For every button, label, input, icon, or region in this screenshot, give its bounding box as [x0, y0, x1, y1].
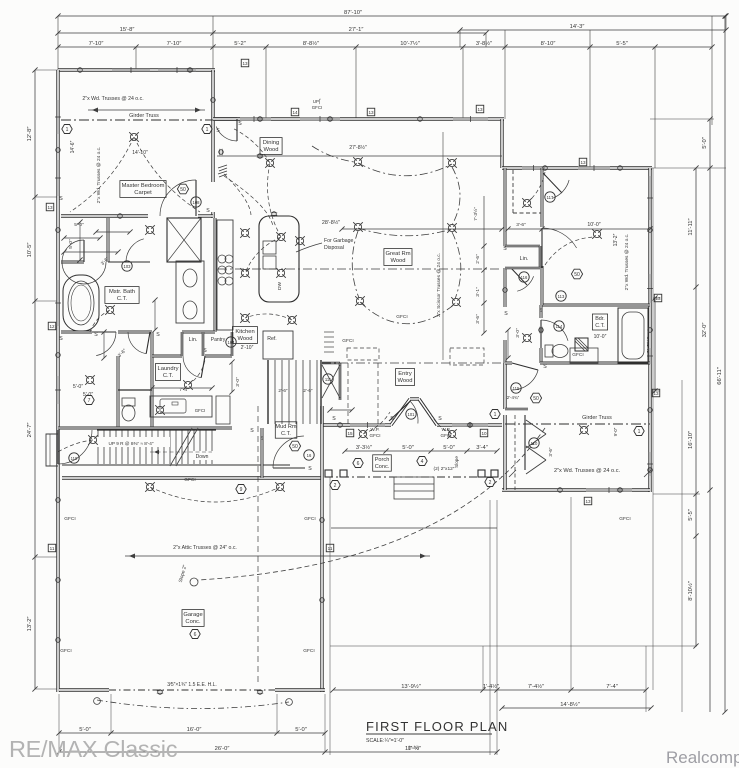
dining ceiling line — [217, 149, 502, 217]
hex tag wic — [84, 396, 94, 405]
svg-text:8′-10½″: 8′-10½″ — [687, 581, 694, 601]
door left wall — [58, 430, 92, 464]
door bath wing — [541, 320, 568, 348]
svg-text:5′-5″: 5′-5″ — [688, 509, 694, 521]
svg-text:Wood: Wood — [390, 258, 405, 264]
svg-text:GFCI: GFCI — [60, 648, 71, 654]
svg-text:GFCI: GFCI — [304, 516, 315, 522]
porch posts — [325, 470, 498, 477]
dining wall hatch — [218, 165, 227, 177]
svg-text:2′-4¾″: 2′-4¾″ — [507, 395, 520, 400]
svg-text:S: S — [203, 348, 207, 354]
svg-text:S: S — [156, 332, 160, 338]
wall wing right — [648, 168, 651, 492]
svg-text:7′-10″: 7′-10″ — [89, 41, 104, 47]
svg-text:11: 11 — [50, 546, 55, 551]
marker squares walls — [46, 59, 662, 552]
bottom extension lines — [59, 694, 325, 752]
svg-text:S: S — [539, 308, 543, 314]
wall dining top — [213, 117, 504, 120]
svg-text:13: 13 — [242, 61, 248, 66]
bath tub wing — [618, 308, 648, 363]
mini dims laundry — [149, 359, 234, 394]
wall hall y428 — [58, 428, 262, 478]
window left 2 — [55, 160, 61, 196]
wall bath bottom — [61, 331, 215, 334]
svg-text:50: 50 — [574, 272, 580, 278]
garage door label — [167, 682, 217, 688]
svg-text:2′-6″: 2′-6″ — [278, 388, 288, 393]
label wing trusses — [624, 234, 630, 291]
svg-text:SCALE:¼″=1′-0″: SCALE:¼″=1′-0″ — [366, 738, 404, 744]
bath toilet wing — [545, 345, 568, 358]
svg-text:11′-11″: 11′-11″ — [688, 218, 694, 235]
svg-text:Bdr.: Bdr. — [595, 316, 605, 322]
label lin wing — [520, 256, 529, 262]
svg-text:Carpet: Carpet — [134, 190, 152, 196]
svg-text:14′-10″: 14′-10″ — [132, 150, 148, 156]
svg-text:2: 2 — [489, 480, 492, 486]
dining switch wires — [224, 174, 273, 226]
door lin wing — [511, 268, 534, 291]
svg-text:3′-0″: 3′-0″ — [515, 328, 521, 338]
door bed2 hall — [542, 228, 577, 305]
wall master closet — [61, 218, 150, 262]
svg-text:104: 104 — [228, 340, 236, 345]
wall entry bay — [391, 399, 437, 425]
label gfci 0 — [60, 648, 71, 654]
svg-text:2″x Wd. Trusses @ 24 o.c.: 2″x Wd. Trusses @ 24 o.c. — [96, 147, 102, 204]
label garbage disposal — [296, 238, 354, 252]
svg-text:6: 6 — [357, 461, 360, 467]
window wing right 4 — [647, 452, 653, 476]
svg-text:26′-0″: 26′-0″ — [215, 746, 230, 752]
dim column x710 32ft — [702, 116, 713, 712]
svg-text:C.T.: C.T. — [595, 323, 605, 329]
label gfci 7 — [619, 516, 630, 522]
watermark realcomp — [666, 748, 739, 767]
porch tags — [330, 457, 495, 490]
svg-text:S: S — [250, 428, 254, 434]
svg-text:13′-2″: 13′-2″ — [27, 617, 33, 632]
right extension lines — [330, 119, 726, 712]
dim row2 left 15ft-8 and 27ft-1 — [55, 27, 488, 36]
svg-text:For Garbage: For Garbage — [324, 238, 354, 244]
label dining dim — [349, 144, 367, 151]
svg-text:103: 103 — [124, 264, 132, 269]
svg-text:10: 10 — [481, 431, 487, 436]
svg-text:12: 12 — [49, 324, 55, 329]
svg-text:16: 16 — [307, 453, 312, 458]
svg-text:3⁄5″×1¾″ 1.5 E.E. H.L.: 3⁄5″×1¾″ 1.5 E.E. H.L. — [167, 682, 217, 688]
label bath wing — [592, 314, 607, 340]
svg-text:5′-0″: 5′-0″ — [68, 239, 74, 249]
tags wing — [519, 269, 583, 331]
label trusses master rot — [96, 147, 102, 204]
master small dims — [68, 222, 241, 387]
svg-text:2″x Attic Trusses @ 24″ o.c.: 2″x Attic Trusses @ 24″ o.c. — [173, 545, 237, 551]
window left 1 — [55, 100, 61, 134]
svg-text:Master Bedroom: Master Bedroom — [122, 183, 165, 189]
svg-text:1: 1 — [638, 429, 641, 435]
wall left exterior — [56, 70, 59, 692]
mini dims wing — [505, 226, 652, 360]
svg-text:27′-8½″: 27′-8½″ — [349, 144, 367, 151]
wall step right — [500, 119, 503, 168]
wall wc divider — [151, 332, 154, 430]
svg-text:Entry: Entry — [398, 371, 412, 377]
wall front mid — [385, 423, 391, 426]
wall lin closet wing — [505, 246, 540, 268]
title first floor plan — [366, 719, 508, 750]
svg-text:Porch: Porch — [375, 457, 390, 463]
svg-text:Conc.: Conc. — [375, 464, 390, 470]
svg-text:50: 50 — [180, 187, 186, 193]
svg-text:S: S — [260, 436, 264, 442]
svg-text:10′-0″: 10′-0″ — [587, 222, 600, 228]
garage big arc — [190, 428, 545, 586]
scissor truss extent line — [442, 132, 444, 360]
svg-text:16′-0″: 16′-0″ — [187, 727, 202, 733]
svg-text:GFCI: GFCI — [195, 408, 206, 413]
svg-text:13: 13 — [585, 499, 591, 504]
kitchen fridge — [263, 331, 293, 359]
svg-text:16′-10″: 16′-10″ — [688, 431, 694, 449]
dim column left — [27, 67, 38, 691]
dim overall width 87ft-10in — [55, 10, 728, 19]
dim column x696 — [687, 165, 699, 648]
great room arc dining — [312, 146, 354, 162]
svg-text:C.T.: C.T. — [117, 296, 128, 302]
door wc — [128, 332, 150, 354]
svg-text:Pantry: Pantry — [211, 337, 226, 343]
bed2 closet — [513, 168, 569, 227]
svg-text:6: 6 — [194, 632, 197, 638]
label master bedroom — [120, 181, 166, 198]
window master top 2 — [158, 67, 196, 73]
mini dims master bath — [61, 235, 157, 360]
wall outlets — [56, 68, 653, 695]
marker squares porch — [346, 429, 488, 437]
window wing right 2 — [647, 274, 653, 303]
svg-text:116: 116 — [521, 275, 528, 280]
label entry — [396, 369, 415, 386]
great room arc left1 — [352, 231, 359, 298]
wall master bottom — [61, 214, 213, 217]
label gfci 1 — [303, 648, 314, 654]
svg-text:GFCI: GFCI — [342, 338, 353, 344]
label gfci 4 — [304, 516, 315, 522]
svg-text:10′-0″: 10′-0″ — [594, 334, 607, 340]
window front 2 — [452, 422, 488, 428]
porch slab edge — [325, 477, 502, 528]
svg-text:50: 50 — [533, 396, 539, 402]
svg-text:Ref.: Ref. — [267, 336, 277, 342]
svg-text:GFCI: GFCI — [572, 352, 583, 358]
svg-text:Wood: Wood — [237, 336, 252, 342]
label gfci 5 — [396, 314, 407, 320]
svg-text:2″x Wd. Trusses @ 24 o.c.: 2″x Wd. Trusses @ 24 o.c. — [82, 96, 143, 102]
label kitchen dim — [241, 345, 254, 351]
svg-text:C.T.: C.T. — [163, 373, 174, 379]
window wing bottom — [586, 487, 632, 493]
svg-text:13′-2″: 13′-2″ — [613, 233, 619, 246]
svg-text:UP 9 R @ 8⅜″ ≈ 8′-4″: UP 9 R @ 8⅜″ ≈ 8′-4″ — [108, 441, 153, 446]
wall master top — [58, 68, 215, 71]
svg-text:Lin.: Lin. — [520, 256, 529, 262]
wall garage top — [62, 465, 322, 478]
top extension lines — [58, 16, 726, 168]
svg-text:Conc.: Conc. — [185, 619, 201, 625]
ceiling lines entry — [322, 363, 502, 425]
wall wing left lower — [503, 363, 506, 490]
svg-text:2″x Wd. Trusses @ 24 o.c.: 2″x Wd. Trusses @ 24 o.c. — [624, 234, 630, 291]
svg-text:5′-0″: 5′-0″ — [73, 384, 83, 390]
wall bath left — [540, 305, 543, 363]
svg-text:S: S — [504, 311, 508, 317]
wall garage right — [320, 406, 323, 692]
label master bath — [105, 287, 139, 304]
label garage — [182, 610, 204, 639]
label laundry — [155, 364, 180, 381]
label dining — [260, 138, 282, 155]
svg-text:14′-6″: 14′-6″ — [70, 140, 76, 153]
tub master — [63, 275, 99, 331]
dim column x655 9ft-3 — [647, 295, 658, 393]
garage ceiling dash — [257, 406, 259, 686]
door wic — [92, 332, 116, 356]
laundry counter sink — [150, 387, 230, 424]
svg-text:C.T.: C.T. — [281, 431, 291, 437]
svg-text:12′-8″: 12′-8″ — [27, 127, 33, 142]
kitchen range — [218, 255, 233, 285]
hex master 50 — [177, 184, 188, 194]
svg-text:2′-6″: 2′-6″ — [303, 388, 313, 393]
label wing trusses2 — [509, 468, 651, 477]
label mud room — [275, 422, 297, 438]
window wing right 1 — [647, 176, 653, 220]
wall bath top y305 — [541, 304, 650, 307]
wall garage bottom — [59, 688, 325, 691]
svg-text:S: S — [206, 208, 210, 214]
svg-text:1: 1 — [206, 127, 209, 133]
svg-text:Dining: Dining — [263, 140, 279, 146]
svg-text:7: 7 — [88, 398, 91, 404]
bottom right extension lines — [330, 477, 646, 755]
great room arc right1 — [452, 167, 460, 225]
svg-text:13: 13 — [477, 107, 483, 112]
dim row 14ft-3 — [457, 24, 728, 33]
svg-text:13′-9½″: 13′-9½″ — [401, 683, 421, 690]
svg-text:(T-½): (T-½) — [408, 744, 419, 750]
switches — [59, 121, 547, 472]
label slope garage — [178, 564, 189, 583]
window left wic — [55, 376, 61, 404]
watermark remax classic — [9, 736, 178, 762]
svg-text:9′-0″: 9′-0″ — [613, 427, 618, 436]
porch steps — [394, 477, 434, 499]
label up gfci dining — [312, 99, 323, 110]
svg-text:15′-8″: 15′-8″ — [120, 27, 135, 33]
svg-text:Laundry: Laundry — [158, 366, 179, 372]
svg-text:10′-5″: 10′-5″ — [27, 243, 33, 258]
svg-text:Disposal: Disposal — [324, 245, 344, 251]
window wing top 2 — [578, 165, 610, 171]
svg-text:Wood: Wood — [397, 378, 412, 384]
entry closet — [322, 363, 340, 400]
wall bath kitchen spine — [214, 218, 217, 332]
wp gfci labels — [370, 427, 452, 438]
wall hallway x505 — [504, 168, 507, 363]
toilet master wc — [122, 398, 135, 421]
window dining 2 — [300, 116, 340, 122]
stairs basement — [268, 360, 321, 424]
svg-text:15: 15 — [347, 431, 353, 436]
label 2x12 — [434, 466, 455, 472]
kitchen island — [259, 216, 299, 302]
window left tub — [55, 280, 61, 326]
wall front corner — [488, 423, 502, 426]
svg-text:13: 13 — [47, 205, 53, 210]
label trusses master — [82, 96, 205, 113]
svg-text:S: S — [94, 332, 98, 338]
label 14-10 — [132, 150, 148, 156]
svg-text:5′-2″: 5′-2″ — [234, 41, 246, 47]
svg-text:28′-8½″: 28′-8½″ — [322, 219, 340, 226]
svg-text:1: 1 — [494, 412, 497, 418]
svg-text:S: S — [390, 416, 394, 422]
svg-text:7′-4″: 7′-4″ — [606, 684, 618, 690]
great room arc right2 — [452, 232, 461, 299]
stairs main — [92, 428, 216, 466]
svg-text:S: S — [238, 121, 242, 127]
wall bath bottom y363 — [505, 362, 650, 365]
svg-text:S: S — [59, 196, 63, 202]
svg-text:32′-0″: 32′-0″ — [702, 323, 708, 338]
shower master — [167, 218, 201, 262]
mini dims master — [77, 219, 132, 262]
svg-text:2″x Wd. Trusses @ 24 o.c.: 2″x Wd. Trusses @ 24 o.c. — [554, 468, 621, 474]
svg-text:1′-4½″: 1′-4½″ — [483, 683, 499, 690]
dim 28ft great room — [322, 219, 505, 232]
svg-text:2″x Scissor Trusses @ 24 o.c.: 2″x Scissor Trusses @ 24 o.c. — [436, 253, 442, 317]
label slope porch — [454, 456, 459, 468]
wall wing top — [502, 166, 652, 169]
label gfci 6 — [572, 352, 583, 358]
svg-text:115: 115 — [513, 386, 520, 391]
ceiling line great room — [218, 268, 502, 270]
svg-text:87′-10″: 87′-10″ — [344, 10, 362, 16]
svg-text:S: S — [503, 246, 507, 252]
svg-text:66′-11″: 66′-11″ — [717, 367, 723, 385]
label porch — [373, 455, 392, 471]
svg-text:14: 14 — [292, 110, 298, 115]
dim column x725 66ft-11 — [717, 13, 728, 714]
svg-text:5′-0″: 5′-0″ — [79, 727, 91, 733]
svg-text:1: 1 — [66, 127, 69, 133]
ceiling lights — [85, 132, 602, 492]
svg-text:8′-10″: 8′-10″ — [541, 41, 556, 47]
label attic trusses — [125, 545, 430, 559]
svg-text:GFCI: GFCI — [64, 516, 75, 522]
label gfci kitchen — [342, 338, 353, 344]
svg-text:3′-4″: 3′-4″ — [476, 445, 488, 451]
svg-text:RE/MAX Classic: RE/MAX Classic — [9, 736, 178, 762]
svg-text:113: 113 — [558, 294, 565, 299]
label lin — [189, 337, 198, 343]
svg-text:13: 13 — [653, 391, 659, 396]
svg-text:Wood: Wood — [263, 147, 278, 153]
svg-text:3′-0″: 3′-0″ — [235, 377, 241, 387]
door mud garage — [273, 436, 314, 468]
svg-text:13: 13 — [655, 296, 661, 301]
girder truss wing — [505, 415, 650, 436]
door dining slider — [216, 119, 237, 141]
dim row y733 garage — [56, 727, 327, 736]
label kitchen — [232, 327, 257, 344]
dim row y712 14ft-8 — [499, 701, 653, 711]
svg-text:GFCI: GFCI — [396, 314, 407, 320]
hex tags misc — [236, 410, 500, 494]
tags misc — [69, 197, 416, 463]
label gfci 2 — [184, 477, 195, 483]
mini dims entry — [327, 407, 354, 412]
svg-text:111: 111 — [325, 377, 332, 382]
svg-text:2: 2 — [334, 483, 337, 489]
svg-text:8′-8½″: 8′-8½″ — [303, 40, 319, 47]
garage door header — [109, 689, 275, 691]
svg-text:Garage: Garage — [183, 612, 202, 618]
door master closet a — [62, 240, 106, 284]
vanity master — [176, 261, 204, 323]
svg-text:GFCI: GFCI — [303, 648, 314, 654]
wall front left — [322, 423, 350, 426]
svg-text:S: S — [59, 336, 63, 342]
wall front right — [437, 423, 452, 426]
svg-text:3′-3½″: 3′-3½″ — [356, 444, 372, 451]
wall pantry box — [182, 332, 232, 356]
svg-text:3′-8½″: 3′-8½″ — [476, 40, 492, 47]
svg-text:Lin.: Lin. — [189, 337, 198, 343]
window dining 1 — [237, 116, 271, 122]
great room arc row1 — [358, 163, 452, 176]
left extension lines — [35, 70, 59, 689]
label gfci 3 — [64, 516, 75, 522]
svg-text:108: 108 — [193, 200, 201, 205]
svg-text:27′-1″: 27′-1″ — [349, 27, 364, 33]
dim row y752 — [56, 745, 499, 755]
svg-text:GFCI: GFCI — [619, 516, 630, 522]
garage door swing — [94, 698, 293, 709]
door bed3 — [512, 363, 538, 390]
svg-text:3′-6″: 3′-6″ — [516, 222, 526, 228]
entry soffit dashed — [324, 332, 484, 365]
window master top 1 — [112, 67, 150, 73]
svg-text:5′-0″: 5′-0″ — [702, 137, 708, 149]
label wing dims small — [515, 222, 526, 338]
svg-text:3′-1″: 3′-1″ — [475, 287, 481, 297]
svg-text:10′-7½″: 10′-7½″ — [400, 40, 420, 47]
great room arc row3 — [360, 302, 456, 324]
svg-text:2′-6″: 2′-6″ — [475, 254, 481, 264]
window front 1 — [350, 422, 385, 428]
svg-text:7′-4½″: 7′-4½″ — [528, 683, 544, 690]
door master entry — [160, 180, 196, 216]
svg-text:117: 117 — [547, 195, 554, 200]
svg-text:2′-10″: 2′-10″ — [241, 345, 254, 351]
label scissor trusses — [436, 253, 442, 317]
svg-text:GFCI: GFCI — [312, 105, 323, 110]
